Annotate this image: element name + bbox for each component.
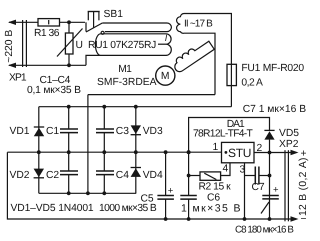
connector XP2 body double line [285,150,288,221]
node bridge bus C2 [67,191,71,195]
svg-text:SMF-3RDEA: SMF-3RDEA [97,77,157,88]
svg-text:0,2 A: 0,2 A [241,78,263,89]
svg-text:0,1 мк×35 В: 0,1 мк×35 В [27,85,81,96]
svg-text:+: + [273,185,279,196]
diode VD1 [34,107,44,153]
svg-text:1000 мк×35 В: 1000 мк×35 В [99,203,157,214]
wire bottom bridge bus [39,192,136,194]
node top bus C1 [67,105,71,109]
capacitor C5 [157,152,174,219]
svg-text:II ~17 В: II ~17 В [184,18,213,29]
svg-text:XP2: XP2 [279,139,299,150]
svg-text:C7: C7 [252,182,265,193]
node pin3 bottom [243,217,247,221]
svg-text:R1 36: R1 36 [34,28,60,39]
svg-text:C1: C1 [46,126,59,137]
svg-text:SB1: SB1 [104,9,124,20]
wire top bus [39,106,232,108]
node junction RU1 bottom [67,63,71,67]
wire left return [7,152,290,219]
capacitor C6 [180,152,197,219]
svg-text:C2: C2 [46,170,59,181]
node VD5 output [268,151,272,155]
svg-text:RU1 07K275RJ: RU1 07K275RJ [88,40,156,51]
node middle bus C5 [164,150,168,154]
diode VD2 [34,152,44,193]
svg-text:C5: C5 [141,194,154,205]
capacitor C1 [60,107,78,153]
winding aux diagonal [171,38,214,73]
varistor RU1 [57,22,83,65]
svg-text:XP1: XP1 [9,73,27,84]
svg-text:VD1–VD5 1N4001: VD1–VD5 1N4001 [11,203,94,214]
node bottom rail C8 [268,217,272,221]
node VD5 input [187,150,191,154]
capacitor C7 [245,167,270,185]
svg-text:VD4: VD4 [143,170,163,181]
resistor R2 [189,172,221,180]
motor M symbol [156,66,175,85]
node bridge bus tap [86,191,90,195]
svg-text:~220 В: ~220 В [4,30,15,63]
svg-text:STU: STU [228,146,251,160]
svg-text:12 В (0,2 А): 12 В (0,2 А) [298,157,309,216]
regulator DA1 box [222,142,255,162]
winding II (secondary) [177,13,232,94]
svg-text:VD5: VD5 [279,128,299,139]
node top bus VD3 [134,105,138,109]
resistor R1 [38,19,85,26]
fan module M1 box [88,94,215,96]
svg-text:M: M [161,71,170,82]
svg-text:U: U [76,40,83,51]
node middle bus C3 [102,150,106,154]
diode VD4 [131,152,141,193]
winding I hairpin loop [102,23,171,32]
svg-text:R2 15 к: R2 15 к [199,182,232,193]
svg-text:+: + [168,186,174,197]
wire pin3 rail [244,163,246,219]
svg-text:1: 1 [213,142,219,153]
connector XP1 body double line [23,20,27,67]
svg-text:FU1 MF-R020: FU1 MF-R020 [241,63,304,74]
wire DA1 output [254,152,291,154]
winding I scallop divider [158,43,166,45]
node bridge bus C4 [102,191,106,195]
svg-text:M1: M1 [118,64,132,75]
svg-text:VD1: VD1 [10,126,30,137]
node middle bus C6 [187,150,191,154]
node middle bus VD4 [134,150,138,154]
node middle bus VD1 [37,150,41,154]
switch SB1 [86,12,104,35]
node middle bus C1 [67,150,71,154]
svg-text:C4: C4 [116,170,129,181]
connector XP2 pin arrows [291,150,299,222]
svg-text:VD2: VD2 [10,170,30,181]
capacitor C4 [96,152,114,193]
wire module tap to bridge [87,95,89,194]
svg-text:C3: C3 [116,126,129,137]
diode VD5 bypass loop [189,118,275,220]
capacitor C2 [60,152,78,193]
node top bus C3 [102,105,106,109]
node bottom rail C5 [164,217,168,221]
node bottom rail C6 [187,217,191,221]
svg-text:VD3: VD3 [143,126,163,137]
capacitor C8 [262,196,279,199]
capacitor C3 [96,107,114,153]
winding I main tube [86,34,171,66]
svg-text:C7 1 мк×16 В: C7 1 мк×16 В [243,104,307,115]
wire middle bus [7,151,221,153]
svg-text:1 мк×35 В: 1 мк×35 В [181,203,242,215]
connector XP1 pin arrows [8,20,86,68]
label STU [225,151,228,154]
leader line C8 [261,202,269,214]
node junction R1/RU1 [67,20,71,24]
svg-text:C8 180 мк×16 В: C8 180 мк×16 В [235,225,294,236]
wire pin4 to R2 [221,163,230,176]
node R2/C6 [187,174,191,178]
svg-text:78R12L-TF4-T: 78R12L-TF4-T [193,129,254,140]
node C7 right [268,174,272,178]
svg-text:4: 4 [223,164,229,175]
fuse FU1 [227,62,236,107]
diode VD3 [131,107,141,153]
